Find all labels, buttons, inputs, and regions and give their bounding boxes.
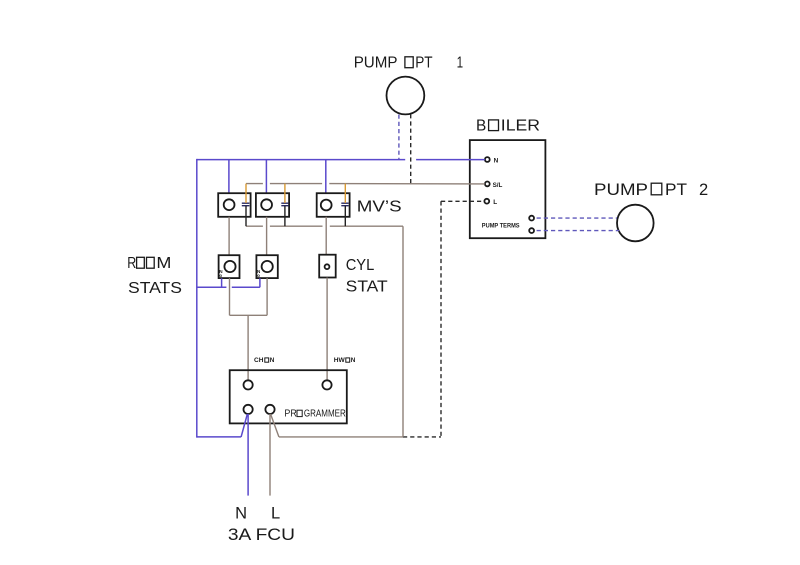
svg-text:M: M <box>156 255 171 272</box>
label PROGRAMMER <box>284 409 345 420</box>
programmer box <box>230 370 347 423</box>
boiler pump terminal 1 <box>529 216 534 221</box>
label CH ON <box>254 357 275 364</box>
svg-text:B: B <box>476 118 486 135</box>
programmer HW ON terminal <box>322 380 331 389</box>
svg-text:L: L <box>493 199 497 206</box>
blue stub RS2 <box>259 278 261 287</box>
svg-text:o: o <box>219 273 222 278</box>
motorised valve MV2 box <box>256 193 289 217</box>
room stat RS2 box <box>256 255 277 278</box>
wire stat join horizontal <box>230 314 268 316</box>
wire brown vertical riser <box>402 226 404 437</box>
pump P1 circle <box>387 77 425 115</box>
boiler terminal S/L <box>485 182 490 187</box>
svg-text:HW: HW <box>334 357 346 364</box>
blue stub RS1 <box>221 278 223 287</box>
label HW ON <box>334 357 356 364</box>
svg-text:R: R <box>127 255 136 272</box>
MV terminal return line <box>246 225 263 227</box>
boiler terminal L <box>484 199 489 204</box>
MV1 switch return drop <box>245 206 247 226</box>
MV1 orange drop <box>245 184 247 203</box>
motorised valve MV1 box <box>218 193 250 217</box>
wire blue left vertical <box>196 159 198 438</box>
MV2 orange drop <box>284 184 286 203</box>
programmer N terminal <box>244 405 253 414</box>
svg-text:PUMP: PUMP <box>594 180 648 199</box>
boiler terminal N <box>485 157 490 162</box>
wire pump2 dashed upper <box>537 217 617 219</box>
svg-text:PT: PT <box>665 180 687 199</box>
wire blue N drop to FCU <box>247 414 249 496</box>
svg-text:PUMP: PUMP <box>354 55 398 72</box>
wire blue top bus <box>197 159 405 161</box>
boiler pump terminal 2 <box>529 228 534 233</box>
wire brown L drop to FCU <box>269 414 271 496</box>
programmer L terminal <box>265 405 274 414</box>
wire cyl stat to HW ON <box>326 278 328 381</box>
wire brown L horizontal <box>279 436 403 438</box>
svg-text:o: o <box>257 273 260 278</box>
wire MV1 circle drop to stat1 <box>228 217 230 255</box>
svg-text:STAT: STAT <box>346 279 388 296</box>
wire pump1 neutral dashed <box>398 115 400 160</box>
wire S/L brown line <box>246 183 263 185</box>
pump P2 circle <box>617 205 654 242</box>
svg-text:CYL: CYL <box>346 257 375 274</box>
motorised valve MV3 box <box>317 193 350 217</box>
label ROOM <box>127 255 171 272</box>
svg-text:CH: CH <box>254 357 264 364</box>
wire blue stat neutral bus <box>197 286 227 288</box>
svg-text:N: N <box>351 357 356 364</box>
dashed L path to boiler <box>441 200 484 202</box>
svg-text:ILER: ILER <box>501 118 540 135</box>
wire MV3 circle drop to cyl stat <box>325 217 327 255</box>
MV3 switch return drop <box>344 206 346 226</box>
svg-text:3A FCU: 3A FCU <box>228 526 295 544</box>
wire RS1 output drop <box>229 278 231 315</box>
wire blue diagonal to N terminal <box>241 414 247 437</box>
MV3 orange drop <box>344 184 346 203</box>
MV2 aux switch bars <box>281 202 288 204</box>
programmer CH ON terminal <box>244 380 253 389</box>
wire blue drop MV1 <box>228 160 230 194</box>
svg-text:N: N <box>270 357 275 364</box>
room stat RS1 box <box>219 255 240 278</box>
svg-text:S/L: S/L <box>493 182 503 189</box>
MV3 aux switch bars <box>341 202 348 204</box>
wire brown diagonal from L terminal <box>271 414 279 437</box>
svg-text:1: 1 <box>457 55 464 72</box>
svg-text:N: N <box>235 504 247 522</box>
svg-text:PUMP TERMS: PUMP TERMS <box>482 223 520 230</box>
label BOILER <box>476 118 540 135</box>
svg-text:MV’S: MV’S <box>357 199 402 216</box>
MV1 aux switch bars <box>242 202 250 204</box>
wire to CH ON <box>247 315 249 380</box>
wire pump1 live dashed <box>410 114 412 183</box>
svg-text:PT: PT <box>415 55 433 72</box>
svg-text:PR: PR <box>284 409 296 420</box>
svg-text:GRAMMER: GRAMMER <box>304 409 346 420</box>
wire blue drop MV2 <box>265 160 267 194</box>
wire pump2 dashed lower <box>537 230 620 232</box>
label PUMP OPT 2 <box>594 180 708 199</box>
svg-text:2: 2 <box>699 180 708 199</box>
svg-text:L: L <box>271 504 280 522</box>
wire MV2 circle drop to stat2 <box>266 217 268 255</box>
label PUMP OPT 1 <box>354 55 463 72</box>
wire blue drop MV3 <box>325 160 327 194</box>
MV2 switch return drop <box>284 206 286 226</box>
cylinder stat box <box>319 255 336 278</box>
svg-text:N: N <box>494 157 499 164</box>
svg-text:STATS: STATS <box>128 280 182 297</box>
wire blue bottom horizontal <box>197 436 241 438</box>
wire RS2 output drop <box>266 278 268 315</box>
boiler box U-BOILER <box>470 140 546 238</box>
